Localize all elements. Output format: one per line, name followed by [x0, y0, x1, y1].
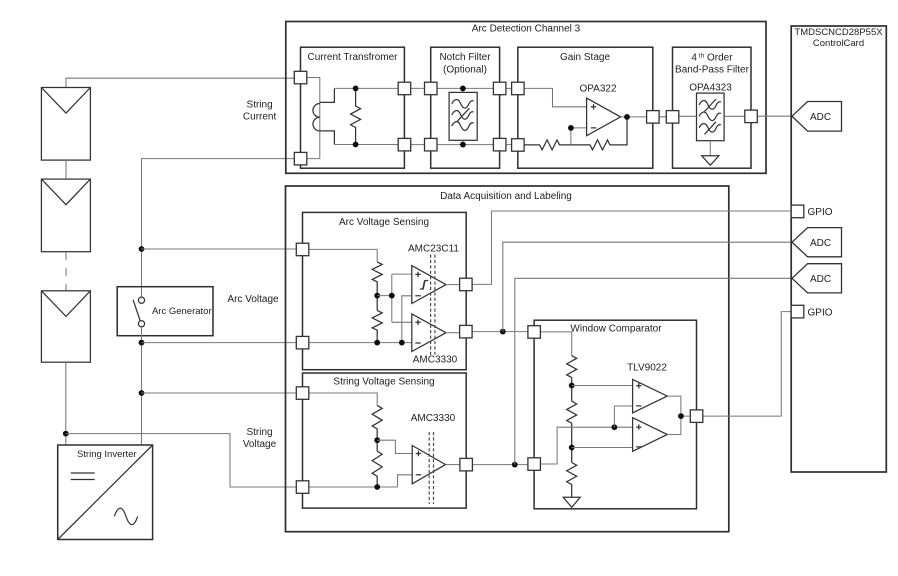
PV panel 3	[41, 291, 90, 362]
wire arc divider top	[309, 249, 378, 262]
current transformer T1 box	[301, 47, 405, 168]
svg-text:String: String	[246, 427, 272, 438]
node arc divider bottom	[374, 340, 380, 346]
port string sensing right	[460, 458, 473, 471]
transformer T1 primary coil	[313, 104, 320, 131]
port CT left B	[294, 152, 307, 165]
svg-text:OPA4323: OPA4323	[689, 83, 732, 94]
wire gain - input	[571, 128, 587, 145]
switch S1	[133, 297, 144, 327]
svg-text:Current: Current	[243, 112, 277, 123]
node arc minus tap	[399, 340, 405, 346]
port notch left top	[425, 82, 438, 95]
wire comparator to GPIO	[472, 211, 791, 284]
Data Acquisition and Labeling section box	[286, 186, 729, 532]
node CT burden bottom	[353, 142, 359, 148]
svg-text:TLV9022: TLV9022	[627, 363, 667, 374]
wire wc ref top	[540, 332, 571, 356]
port gain right	[647, 111, 660, 124]
wire panel3 to inverter	[65, 362, 67, 445]
wire CT to notch bottom	[404, 144, 430, 146]
op-amp U4 AMC3330	[412, 314, 446, 352]
node gain output feedback	[624, 114, 630, 120]
svg-text:AMC3330: AMC3330	[411, 413, 456, 424]
wire notch top rail	[431, 87, 500, 89]
svg-text:ControlCard: ControlCard	[813, 38, 864, 49]
ground wc	[563, 497, 580, 507]
inverter diagonal	[58, 445, 153, 540]
wire string divider top	[309, 393, 378, 405]
wire string voltage top	[142, 392, 297, 394]
resistor arc divider R1	[372, 262, 382, 311]
wire wc output to GPIO	[703, 312, 791, 417]
wire wc signal to comp1 minus	[614, 406, 632, 427]
port CT right top	[398, 82, 411, 95]
hysteresis glyph U3	[420, 281, 428, 290]
svg-text:(Optional): (Optional)	[443, 65, 487, 76]
port gain left top	[512, 82, 524, 95]
svg-text:Arc Voltage: Arc Voltage	[227, 294, 279, 305]
port notch right top	[493, 82, 506, 95]
port ADC 3	[792, 264, 842, 293]
gain stage box	[518, 47, 653, 168]
window comparator box	[534, 320, 696, 509]
wire below switch	[141, 327, 143, 445]
node wc signal tap	[612, 424, 618, 430]
wire notch to gain top	[500, 87, 518, 89]
svg-text:Notch Filter: Notch Filter	[439, 52, 491, 63]
port ADC 1	[792, 102, 842, 132]
wire gain + input	[524, 88, 587, 106]
wire arc voltage bottom	[142, 342, 297, 344]
svg-text:OPA322: OPA322	[579, 84, 616, 95]
port wc left bottom	[528, 458, 541, 471]
notch filter glyph	[449, 92, 477, 140]
wire CT port B to arc generator	[142, 159, 295, 298]
resistor gain input	[524, 140, 571, 150]
string inverter U10 box	[58, 445, 153, 540]
resistor wc R3	[567, 463, 577, 498]
node string divider bottom	[374, 484, 380, 490]
wire arc mid to plus inputs	[377, 274, 412, 322]
resistor arc divider R2	[372, 310, 382, 342]
node string divider mid	[374, 437, 380, 443]
node inverter DC+ junction	[63, 431, 69, 437]
port arc sensing right top	[460, 278, 473, 291]
port GPIO 2	[791, 305, 804, 318]
node CT burden top	[353, 86, 359, 92]
inverter AC sine symbol	[114, 508, 137, 525]
comparator U3 AMC23C11	[412, 266, 446, 304]
svg-text:String Inverter: String Inverter	[77, 449, 137, 460]
port gain left bottom	[512, 139, 524, 152]
node notch input	[460, 86, 466, 92]
svg-text:Arc Generator: Arc Generator	[152, 306, 212, 317]
port arc sensing left top	[296, 243, 309, 256]
inverter DC symbol	[71, 473, 95, 480]
node gain - input	[568, 125, 574, 131]
node arc amp ADC tap	[500, 329, 506, 335]
node arc voltage bottom junction	[139, 340, 145, 346]
wire bandpass to ADC	[751, 115, 792, 117]
port arc sensing left bottom	[296, 336, 309, 349]
svg-text:Arc Voltage Sensing: Arc Voltage Sensing	[339, 217, 429, 228]
wire notch stems	[462, 88, 464, 144]
TMDSCNCD28P55X ControlCard box	[791, 26, 886, 472]
node arc voltage top junction	[139, 246, 145, 252]
svg-text:String Voltage Sensing: String Voltage Sensing	[333, 377, 434, 388]
ground bandpass	[709, 141, 711, 156]
wire arc amp to ADC	[503, 242, 794, 331]
svg-text:GPIO: GPIO	[808, 307, 833, 318]
node notch output	[460, 142, 466, 148]
wire string amp output	[446, 464, 460, 466]
port bandpass right	[745, 110, 758, 123]
notch filter box	[431, 47, 500, 168]
port string sensing left top	[296, 387, 309, 400]
comparator U7 TLV9022 B	[633, 418, 668, 452]
svg-text:String: String	[247, 100, 273, 111]
node wc output	[678, 413, 684, 419]
wire gain to bandpass	[653, 116, 673, 118]
node arc plus tap	[389, 293, 395, 299]
svg-text:Voltage: Voltage	[243, 439, 277, 450]
arc voltage sensing box	[303, 212, 467, 369]
resistor gain feedback	[571, 117, 627, 150]
resistor string divider R1	[372, 405, 382, 440]
Arc Detection Channel 3 section box	[286, 22, 766, 174]
resistor wc R2	[567, 401, 577, 462]
wire notch to gain bottom	[500, 144, 518, 146]
wire PV string top to CT port A	[66, 78, 294, 87]
wire panel1-panel2	[65, 160, 67, 179]
svg-text:AMC23C11: AMC23C11	[408, 244, 459, 255]
svg-text:ADC: ADC	[810, 238, 831, 249]
PV panel 1	[41, 88, 90, 161]
isolation barrier arc sensing	[431, 255, 435, 356]
arc generator Q1 box	[117, 287, 213, 336]
wire arc bottom rail	[309, 342, 412, 344]
wire arc amp output	[446, 332, 460, 334]
wire string amp to window comparator	[472, 464, 528, 466]
wire string voltage sense lower	[66, 434, 296, 487]
svg-text:Data Acquisition and Labeling: Data Acquisition and Labeling	[440, 191, 572, 202]
svg-text:Gain Stage: Gain Stage	[560, 52, 610, 63]
port wc right	[690, 410, 703, 423]
node arc divider mid	[374, 293, 380, 299]
dashed wire panel2-panel3	[65, 252, 67, 291]
comparator U6 TLV9022 A	[633, 379, 668, 413]
wire wc signal input	[540, 427, 632, 464]
isolation barrier string sensing	[429, 432, 433, 504]
wire bandpass input	[679, 115, 697, 117]
resistor wc R1	[567, 356, 577, 402]
node wc ref1	[569, 383, 575, 389]
wire arc voltage top	[142, 248, 297, 250]
wire notch bottom rail	[431, 144, 500, 146]
wire wc ref1 to comp1 plus	[572, 385, 633, 387]
wire CT to notch top	[404, 87, 430, 89]
wire CT secondary bottom	[334, 144, 398, 146]
wire string plus input	[377, 440, 412, 453]
port ADC 2	[792, 228, 842, 257]
op-amp U5 AMC3330	[412, 446, 445, 484]
svg-text:Band-Pass Filter: Band-Pass Filter	[675, 65, 750, 76]
wire wc outputs join	[667, 396, 690, 434]
resistor string divider R2	[372, 451, 382, 487]
port string sensing left bottom	[296, 481, 309, 494]
wire bandpass output	[725, 115, 745, 117]
svg-text:TMDSCNCD28P55X: TMDSCNCD28P55X	[794, 27, 883, 38]
port arc sensing right bottom	[460, 325, 473, 338]
transformer T1 primary	[307, 78, 320, 159]
port CT left A	[294, 71, 307, 84]
resistor CT burden	[351, 88, 361, 144]
svg-text:ADC: ADC	[810, 274, 831, 285]
wire arc amp to window comparator	[472, 331, 528, 333]
string voltage sensing box	[303, 373, 467, 508]
node wc ref2	[569, 445, 575, 451]
svg-text:Window Comparator: Window Comparator	[570, 324, 662, 335]
port bandpass left	[666, 111, 679, 124]
wire comparator output	[446, 284, 460, 286]
band-pass filter glyph	[697, 93, 725, 141]
PV panel 2	[41, 179, 90, 252]
band-pass filter box	[673, 47, 752, 168]
node string voltage top junction	[139, 390, 145, 396]
wire string bottom rail	[309, 486, 398, 488]
wire string amp to ADC	[515, 278, 794, 464]
port notch left bottom	[425, 138, 438, 151]
svg-text:ADC: ADC	[810, 112, 831, 123]
svg-text:AMC3330: AMC3330	[413, 355, 458, 366]
port GPIO 1	[791, 205, 804, 218]
port notch right bottom	[493, 138, 506, 151]
wire CT secondary top	[334, 87, 398, 89]
port CT right bottom	[398, 138, 411, 151]
wire gain output	[621, 116, 647, 118]
svg-text:GPIO: GPIO	[808, 207, 833, 218]
wire string minus input	[398, 475, 413, 487]
transformer T1 secondary bracket	[320, 88, 335, 144]
port wc left top	[528, 326, 541, 339]
wire wc ref2 to comp2 minus	[572, 447, 633, 449]
op-amp U2 OPA322	[587, 98, 621, 136]
wire arc minus tap	[402, 296, 412, 343]
node string amp ADC tap	[512, 462, 518, 468]
svg-text:Current Transfromer: Current Transfromer	[307, 52, 398, 63]
svg-text:Arc Detection Channel 3: Arc Detection Channel 3	[472, 24, 581, 35]
